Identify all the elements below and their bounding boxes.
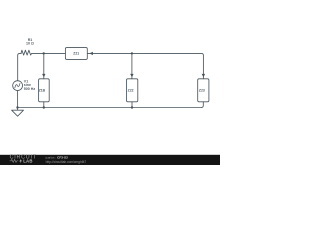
svg-text:http://circuitlab.com/cmgh6t7: http://circuitlab.com/cmgh6t7 [46,160,87,164]
svg-text:Z23: Z23 [199,89,205,93]
svg-text:LAB: LAB [23,159,33,164]
svg-text:500 Hz: 500 Hz [24,87,36,91]
svg-text:10 Ω: 10 Ω [26,41,34,45]
svg-text:Z21: Z21 [73,52,79,56]
svg-text:Z22: Z22 [128,89,134,93]
svg-text:Z1B: Z1B [39,89,46,93]
